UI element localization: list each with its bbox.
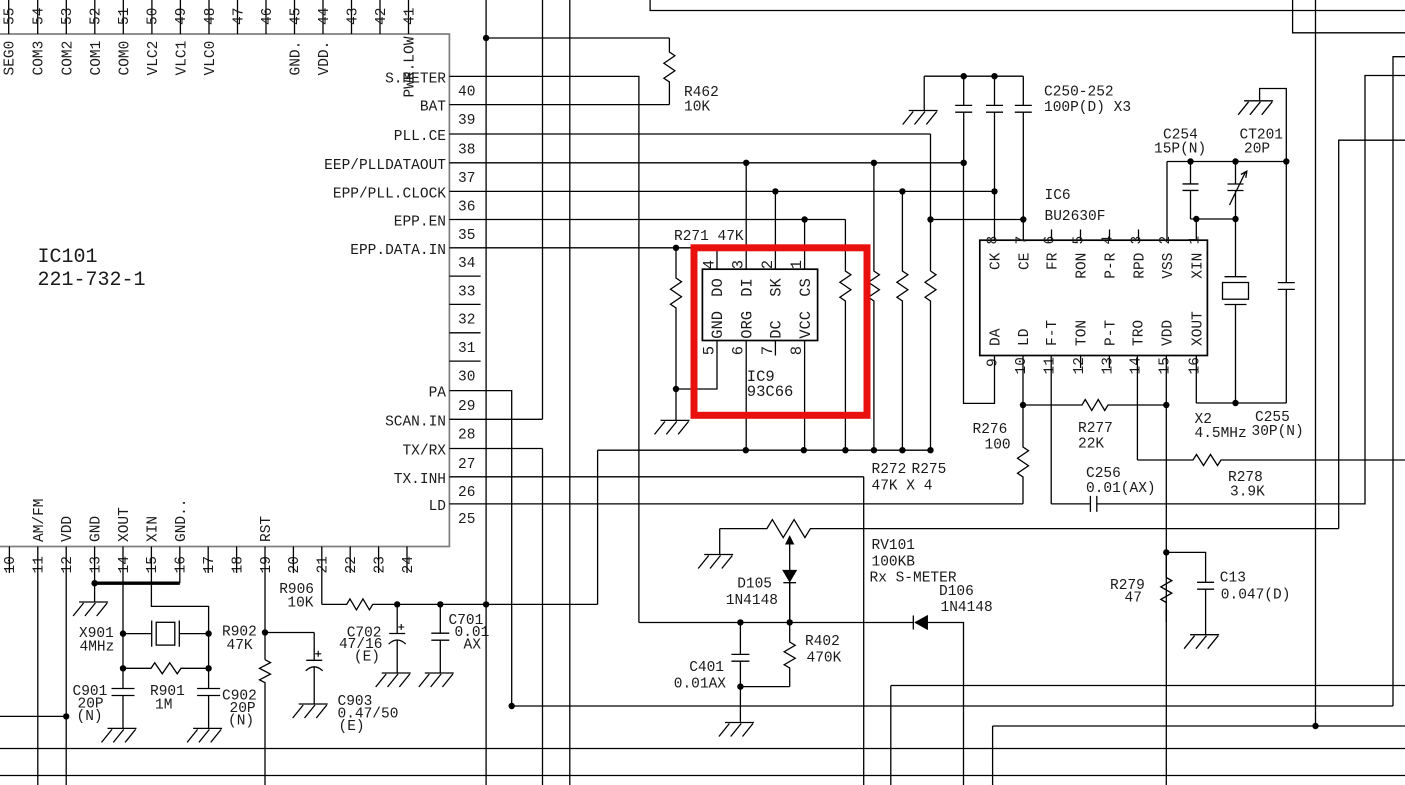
- wire S-meter rail y622: [639, 622, 913, 624]
- ground C903: [293, 704, 328, 718]
- resistor R275 d: [925, 271, 936, 450]
- wire IC9 pin 5 GND: [676, 341, 717, 390]
- svg-text:49: 49: [174, 8, 190, 25]
- svg-text:XIN: XIN: [145, 516, 161, 542]
- resistor R402: [784, 622, 795, 686]
- wire EPP.EN pin 35 rail: [449, 219, 845, 221]
- junction C252/CE: [1020, 216, 1026, 222]
- svg-text:38: 38: [458, 142, 475, 158]
- wire XOUT rail y403: [1196, 402, 1286, 404]
- IC IC9 93C66 EEPROM body: [702, 269, 817, 340]
- svg-text:C250-252: C250-252: [1044, 85, 1114, 101]
- svg-text:3: 3: [1130, 236, 1146, 245]
- wire IC6 pin 8 CK: [994, 191, 996, 240]
- svg-text:GND: GND: [89, 516, 105, 542]
- svg-text:R272: R272: [872, 462, 907, 478]
- wire RV101 left to ground: [719, 529, 721, 555]
- wire vertical bus x542 upper (to SCAN.IN): [542, 0, 544, 419]
- svg-text:5: 5: [701, 346, 719, 355]
- svg-text:R276: R276: [973, 422, 1008, 438]
- wire IC101 pin 22 stub: [349, 547, 351, 574]
- wire vertical bus x1315: [1315, 0, 1317, 726]
- wire IC9 pin 8 VCC: [804, 341, 806, 451]
- wire IC101 pin 55: [8, 0, 10, 34]
- capacitor C702 (electrolytic): [389, 604, 406, 673]
- svg-text:52: 52: [89, 8, 105, 25]
- wire XIN node rail: [1191, 218, 1236, 220]
- svg-text:GND: GND: [709, 311, 727, 339]
- wire ground stem: [923, 76, 925, 110]
- svg-text:VCC: VCC: [797, 311, 815, 339]
- svg-text:TRO: TRO: [1131, 320, 1147, 346]
- svg-text:6: 6: [1043, 236, 1059, 245]
- resistor R276: [1018, 405, 1029, 504]
- IC IC101 (main microcontroller body, partly off-page left): [0, 34, 449, 547]
- diode D106 1N4148: [913, 616, 927, 630]
- svg-text:GND..: GND..: [174, 498, 190, 542]
- svg-text:BAT: BAT: [420, 100, 446, 116]
- svg-text:DO: DO: [709, 278, 727, 297]
- resistor R901: [123, 663, 209, 674]
- svg-text:SEG0: SEG0: [3, 41, 19, 76]
- capacitor C701: [431, 604, 449, 673]
- svg-text:D105: D105: [737, 577, 772, 593]
- wire IC9 pin 3 DI: [745, 163, 747, 269]
- svg-text:(N): (N): [77, 709, 103, 725]
- ground C901: [102, 728, 137, 742]
- svg-text:VSS: VSS: [1161, 253, 1177, 279]
- wire top bus y10: [650, 0, 1405, 11]
- svg-text:SK: SK: [768, 277, 786, 296]
- wire IC6 pin 13 P-T stub: [1108, 356, 1110, 369]
- highlight red box around IC9: [694, 248, 867, 415]
- capacitor C903 (electrolytic): [306, 633, 323, 705]
- diode D105 1N4148: [783, 571, 796, 582]
- svg-text:13: 13: [1101, 357, 1117, 374]
- svg-text:41: 41: [402, 8, 418, 25]
- wire IC6 pin 9 DA path: [964, 163, 995, 404]
- junction C251 top: [991, 73, 997, 79]
- wire RV101 rail to right edge: [1339, 140, 1405, 528]
- junction VDD/bus716: [63, 713, 69, 719]
- svg-text:22K: 22K: [1078, 437, 1104, 453]
- resistor R279: [1161, 552, 1172, 622]
- capacitor C250: [955, 76, 972, 163]
- svg-text:34: 34: [458, 256, 475, 272]
- svg-text:45: 45: [288, 8, 304, 25]
- svg-text:EPP/PLL.CLOCK: EPP/PLL.CLOCK: [333, 186, 446, 202]
- resistor R272 a: [840, 220, 851, 451]
- svg-text:15: 15: [1158, 357, 1174, 374]
- wire R271 bottom to ground: [675, 389, 677, 420]
- wire IC101 pin 49: [179, 0, 181, 34]
- wire IC9 pin 7 DC stub: [774, 341, 776, 356]
- svg-text:54: 54: [32, 8, 48, 25]
- svg-text:6: 6: [730, 346, 748, 355]
- capacitor C254: [1183, 162, 1199, 220]
- ground C902: [187, 728, 222, 742]
- junction SK/rail36: [772, 188, 778, 194]
- wire x930 vertical upper: [930, 134, 932, 271]
- junction C13 branch: [1163, 549, 1169, 555]
- wire IC6 pin 5 RON stub: [1080, 230, 1082, 241]
- capacitor C251: [986, 76, 1003, 191]
- wire IC101 pin 54: [37, 0, 39, 34]
- wire IC6 pin 12 TON stub: [1080, 356, 1082, 369]
- svg-text:D106: D106: [939, 584, 974, 600]
- svg-text:LD: LD: [429, 499, 446, 515]
- svg-text:TX/RX: TX/RX: [402, 444, 446, 460]
- svg-text:CS: CS: [797, 278, 815, 297]
- junction pin13/gnd bar: [91, 580, 97, 586]
- junction X901 right: [205, 630, 211, 636]
- resistor R272 b: [868, 163, 879, 450]
- wire IC101 pin 50: [151, 0, 153, 34]
- svg-text:IC101: IC101: [38, 246, 98, 269]
- svg-text:1N4148: 1N4148: [726, 593, 778, 609]
- svg-text:TX.INH: TX.INH: [394, 472, 446, 488]
- svg-text:1N4148: 1N4148: [941, 600, 993, 616]
- svg-text:GND.: GND.: [289, 41, 305, 76]
- wire IC6 pin 7 CE: [1022, 220, 1024, 241]
- junction rail450: [801, 447, 807, 453]
- svg-text:CK: CK: [989, 252, 1005, 270]
- wire pulldown rail y450: [598, 449, 931, 451]
- junction rail450: [899, 447, 905, 453]
- svg-text:DA: DA: [989, 328, 1005, 346]
- svg-text:221-732-1: 221-732-1: [38, 269, 146, 292]
- junction R901 left: [120, 665, 126, 671]
- wire D106 anode to bottom: [927, 623, 963, 785]
- svg-text:10: 10: [3, 556, 19, 573]
- capacitor C902: [197, 689, 220, 696]
- svg-text:10: 10: [1014, 357, 1030, 374]
- wire IC6 pin 14 TRO: [1136, 356, 1138, 461]
- wire IC101 pin 44: [322, 0, 324, 34]
- junction rail/x486: [483, 601, 489, 607]
- junction C250 top: [961, 73, 967, 79]
- svg-text:4MHz: 4MHz: [80, 640, 115, 656]
- wire vertical bus x486: [485, 0, 487, 785]
- svg-text:XIN: XIN: [1190, 253, 1206, 279]
- wire IC6 pin 3 RPD stub: [1138, 230, 1140, 241]
- svg-text:DI: DI: [738, 278, 756, 297]
- junction LD/R276/R277: [1020, 402, 1026, 408]
- junction CT201 top: [1232, 158, 1238, 164]
- crystal X901 4MHz: [123, 621, 209, 647]
- svg-text:2: 2: [1158, 236, 1174, 245]
- svg-text:19: 19: [259, 556, 275, 573]
- svg-text:55: 55: [3, 8, 19, 25]
- svg-text:(E): (E): [354, 650, 380, 666]
- svg-text:100: 100: [985, 438, 1011, 454]
- resistor R277: [1023, 400, 1166, 411]
- svg-text:100P(D) X3: 100P(D) X3: [1044, 100, 1131, 116]
- svg-text:47: 47: [1125, 591, 1142, 607]
- wire IC6 pin 10 LD: [1022, 356, 1024, 406]
- wire bus685 drop: [890, 686, 892, 785]
- wire C250 rail y76: [924, 75, 1023, 77]
- wire vertical bus x570: [569, 0, 571, 785]
- svg-text:47: 47: [231, 8, 247, 25]
- svg-text:8: 8: [788, 346, 806, 355]
- wire IC6 pin 4 P-R stub: [1109, 230, 1111, 241]
- junction C251/CK/rail36: [991, 188, 997, 194]
- svg-text:(N): (N): [228, 714, 254, 730]
- svg-text:0.01AX: 0.01AX: [674, 677, 727, 693]
- svg-text:1: 1: [1188, 236, 1204, 245]
- wire IC6 pin 1 XIN: [1195, 219, 1197, 240]
- junction rail450: [871, 447, 877, 453]
- svg-text:25: 25: [458, 512, 475, 528]
- wire IC101 pin 53: [65, 0, 67, 34]
- wire IC101 pin 20 stub: [292, 547, 294, 574]
- svg-text:28: 28: [458, 428, 475, 444]
- svg-text:18: 18: [230, 556, 246, 573]
- svg-text:470K: 470K: [807, 651, 842, 667]
- svg-text:8: 8: [986, 236, 1002, 245]
- junction RST/C903 branch: [262, 629, 268, 635]
- junction rail450: [842, 447, 848, 453]
- svg-text:47K: 47K: [227, 638, 253, 654]
- svg-text:VLC1: VLC1: [174, 41, 190, 76]
- svg-text:DC: DC: [768, 320, 786, 339]
- svg-text:4: 4: [701, 260, 719, 269]
- wire IC101 pin 52: [94, 0, 96, 34]
- wire bus706 right riser: [1393, 57, 1405, 706]
- svg-text:13: 13: [88, 556, 104, 573]
- junction R275c top: [899, 188, 905, 194]
- wire GND.. pin 16 down: [179, 547, 181, 584]
- junction CT201/X2: [1232, 216, 1238, 222]
- svg-text:100KB: 100KB: [872, 555, 916, 571]
- svg-text:0.047(D): 0.047(D): [1221, 588, 1291, 604]
- wire IC101 pin 41: [408, 0, 410, 34]
- svg-text:24: 24: [401, 556, 417, 573]
- svg-text:30: 30: [458, 369, 475, 385]
- junction XIN: [1193, 216, 1199, 222]
- svg-text:14: 14: [1129, 357, 1145, 374]
- svg-text:11: 11: [32, 556, 48, 573]
- svg-text:4.5MHz: 4.5MHz: [1195, 426, 1247, 442]
- svg-text:EPP.EN: EPP.EN: [394, 215, 446, 231]
- wire IC9 pin 4 DO: [676, 248, 717, 269]
- svg-text:SCAN.IN: SCAN.IN: [385, 414, 446, 430]
- wire IC6 pin 15 VDD long vertical: [1165, 356, 1167, 785]
- svg-text:EPP.DATA.IN: EPP.DATA.IN: [350, 243, 446, 259]
- junction CS/rail35: [801, 216, 807, 222]
- ground C401: [719, 723, 754, 737]
- capacitor C256 (series on F-T line): [1051, 76, 1405, 512]
- wire IC101 pin 31 stub: [449, 332, 480, 334]
- wire EEP/PLLDATAOUT pin 37 rail: [449, 162, 963, 164]
- junction X2 bottom: [1232, 400, 1238, 406]
- junction x1315/bus726: [1312, 723, 1318, 729]
- svg-text:14: 14: [117, 556, 133, 573]
- svg-text:COM1: COM1: [89, 41, 105, 76]
- svg-text:40: 40: [458, 85, 475, 101]
- svg-text:51: 51: [117, 8, 133, 25]
- svg-text:C401: C401: [689, 660, 724, 676]
- svg-text:39: 39: [458, 113, 475, 129]
- capacitor C13: [1197, 579, 1214, 635]
- svg-text:F-T: F-T: [1045, 320, 1061, 346]
- svg-text:15P(N): 15P(N): [1154, 142, 1206, 158]
- wire bus726 drop: [992, 726, 994, 785]
- wire IC101 pin 24 stub: [406, 547, 408, 574]
- svg-text:53: 53: [60, 8, 76, 25]
- svg-text:32: 32: [458, 313, 475, 329]
- capacitor C255: [1278, 162, 1295, 404]
- svg-text:12: 12: [1072, 357, 1088, 374]
- resistor R275 c: [897, 191, 908, 450]
- potentiometer RV101 track: [720, 520, 1339, 538]
- svg-text:BU2630F: BU2630F: [1045, 209, 1106, 225]
- svg-text:EEP/PLLDATAOUT: EEP/PLLDATAOUT: [324, 158, 446, 174]
- wire AM/FM pin 11 down: [37, 547, 39, 785]
- svg-text:42: 42: [374, 8, 390, 25]
- wire IC101 pin 17 stub: [207, 547, 209, 574]
- svg-text:P-T: P-T: [1103, 320, 1119, 346]
- svg-text:RPD: RPD: [1133, 253, 1149, 279]
- svg-text:3.9K: 3.9K: [1230, 485, 1265, 501]
- svg-text:VLC2: VLC2: [146, 41, 162, 76]
- svg-text:7: 7: [1015, 236, 1031, 245]
- wire EPP/PLL.CLOCK pin 36 rail: [449, 190, 994, 192]
- wire XIN pin 15 path: [151, 547, 208, 729]
- svg-text:37: 37: [458, 171, 475, 187]
- svg-text:PLL.CE: PLL.CE: [394, 129, 446, 145]
- svg-text:29: 29: [458, 399, 475, 415]
- wire S.METER pin 40: [449, 76, 639, 104]
- junction R272b top: [871, 160, 877, 166]
- wire C903 branch: [265, 632, 314, 634]
- svg-text:47K X 4: 47K X 4: [872, 479, 933, 495]
- wire IC101 pin 47: [237, 0, 239, 34]
- junction C701 top: [437, 601, 443, 607]
- junction rail450: [927, 447, 933, 453]
- wire IC101 pin 18 stub: [236, 547, 238, 574]
- svg-text:0.01(AX): 0.01(AX): [1086, 481, 1156, 497]
- svg-text:R271 47K: R271 47K: [674, 229, 744, 245]
- svg-text:11: 11: [1042, 357, 1058, 374]
- svg-text:30P(N): 30P(N): [1252, 424, 1304, 440]
- svg-text:RV101: RV101: [872, 538, 916, 554]
- svg-text:1: 1: [788, 260, 806, 269]
- svg-text:VDD: VDD: [1160, 320, 1176, 346]
- svg-text:TON: TON: [1075, 320, 1091, 346]
- wire C401 ground stem: [739, 687, 741, 723]
- svg-text:46: 46: [260, 8, 276, 25]
- wire C13 branch: [1166, 552, 1205, 579]
- svg-text:C256: C256: [1086, 466, 1121, 482]
- wire IC6 pin 11 F-T: [1050, 356, 1052, 504]
- svg-text:RON: RON: [1075, 253, 1091, 279]
- trimmer capacitor CT201: [1228, 162, 1247, 220]
- svg-text:27: 27: [458, 457, 475, 473]
- svg-text:36: 36: [458, 200, 475, 216]
- wire D105 cathode down: [789, 583, 791, 623]
- ground pin 13: [73, 602, 108, 616]
- wire BAT pin 39: [449, 104, 669, 106]
- svg-text:43: 43: [345, 8, 361, 25]
- svg-text:VLC0: VLC0: [203, 41, 219, 76]
- ground RV101: [698, 555, 733, 569]
- svg-text:3: 3: [730, 260, 748, 269]
- svg-text:7: 7: [759, 346, 777, 355]
- svg-text:2: 2: [759, 260, 777, 269]
- wire IC101 pin 33 stub: [449, 275, 480, 277]
- junction R271/pin5: [673, 386, 679, 392]
- svg-text:VDD: VDD: [60, 516, 76, 542]
- svg-text:XOUT: XOUT: [117, 507, 133, 542]
- svg-text:AX: AX: [464, 638, 482, 654]
- svg-text:RST: RST: [259, 516, 275, 542]
- ground C250 rail: [903, 111, 938, 125]
- wire PA pin 29: [449, 391, 511, 706]
- resistor R902: [260, 660, 271, 785]
- wire R462 top rail: [486, 37, 669, 39]
- wire vertical x597: [597, 450, 599, 604]
- svg-text:LD: LD: [1017, 329, 1033, 346]
- svg-text:16: 16: [174, 556, 190, 573]
- junction R462 rail / x486: [483, 35, 489, 41]
- svg-text:35: 35: [458, 228, 475, 244]
- ground C13: [1184, 635, 1219, 649]
- svg-text:23: 23: [372, 556, 388, 573]
- wire bold ground bar pins 13-16: [95, 582, 180, 585]
- wire bus y706: [512, 705, 1393, 707]
- wire bus y716: [0, 715, 66, 717]
- wire bus y748: [0, 748, 1405, 750]
- svg-text:(E): (E): [339, 719, 365, 735]
- svg-text:44: 44: [317, 8, 333, 25]
- svg-text:4: 4: [1101, 236, 1117, 245]
- ground C701: [419, 673, 454, 687]
- svg-text:10K: 10K: [287, 596, 313, 612]
- wire IC101 pin 45: [294, 0, 296, 34]
- svg-text:R402: R402: [805, 634, 840, 650]
- wire SCAN.IN pin 28: [449, 418, 542, 420]
- wire IC6 pin 2 VSS: [1166, 162, 1168, 241]
- junction C702 top: [394, 601, 400, 607]
- junction x930/CE branch: [927, 216, 933, 222]
- wire vertical x639 (S-meter feed): [638, 105, 640, 623]
- svg-text:S.METER: S.METER: [385, 71, 446, 87]
- svg-text:PA: PA: [429, 386, 447, 402]
- svg-text:IC6: IC6: [1045, 188, 1071, 204]
- wire R402 bottom: [740, 686, 789, 688]
- junction PA/bus706: [509, 703, 515, 709]
- wire right bus y33: [1293, 0, 1405, 33]
- svg-text:XOUT: XOUT: [1190, 311, 1206, 346]
- svg-text:26: 26: [458, 485, 475, 501]
- wire bus y685: [891, 685, 1405, 687]
- wire vertical bus x542 lower (TX/RX): [542, 449, 544, 785]
- crystal X2 4.5MHz: [1225, 219, 1247, 403]
- svg-text:CE: CE: [1017, 253, 1033, 270]
- wire VDD pin 12 down: [65, 547, 67, 785]
- wire IC101 pin 42: [379, 0, 381, 34]
- junction C401 bottom: [737, 683, 743, 689]
- resistor R271: [671, 248, 682, 389]
- svg-text:ORG: ORG: [738, 311, 756, 339]
- svg-text:21: 21: [316, 556, 332, 573]
- svg-text:93C66: 93C66: [747, 383, 794, 401]
- junction R901 right: [205, 665, 211, 671]
- svg-text:5: 5: [1072, 236, 1088, 245]
- junction pin34/R271/DO: [673, 245, 679, 251]
